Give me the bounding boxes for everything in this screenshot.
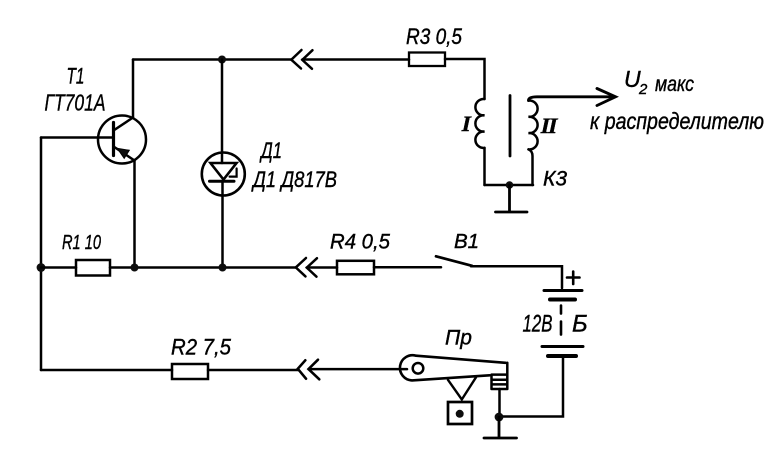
ignition coil primary winding I xyxy=(475,99,484,148)
transistor T1 xyxy=(98,116,146,164)
resistor R2 xyxy=(172,364,208,379)
wire switch to battery corner xyxy=(471,266,562,288)
wire R4 to switch xyxy=(374,266,441,269)
svg-text:макс: макс xyxy=(655,73,694,96)
ignition coil secondary winding II xyxy=(529,100,538,149)
svg-text:R4 0,5: R4 0,5 xyxy=(330,230,391,254)
svg-text:ГТ701А: ГТ701А xyxy=(45,90,106,116)
wire lower rail R2 to chevron xyxy=(208,369,298,372)
wire diode top lead xyxy=(221,60,224,164)
chevron break mark middle rail xyxy=(296,258,317,277)
wire top rail left segment (collector to chevron) xyxy=(133,58,291,61)
node K3 junction dot xyxy=(506,181,514,189)
transformer core xyxy=(509,96,512,157)
resistor R4 xyxy=(337,261,374,275)
arrow head U2 output xyxy=(597,89,616,106)
chevron break mark lower rail xyxy=(298,360,320,380)
wire middle rail chevron to R4 xyxy=(307,266,337,269)
zener diode D1 xyxy=(202,153,245,196)
svg-text:T1: T1 xyxy=(67,64,85,89)
wire diode bottom lead xyxy=(221,181,224,268)
node ground junction dot xyxy=(495,413,504,422)
svg-text:Б: Б xyxy=(572,311,588,338)
svg-text:2: 2 xyxy=(638,81,648,98)
wire left vertical (base to lower rail) xyxy=(40,138,43,371)
breaker pivot hole xyxy=(413,363,424,374)
wire R3 to transformer xyxy=(445,59,485,99)
svg-text:12В: 12В xyxy=(523,311,553,338)
battery plus sign xyxy=(567,272,580,285)
breaker cam axis dot xyxy=(456,410,464,418)
chevron break mark top rail xyxy=(291,50,312,69)
wire secondary top lead to arrow xyxy=(529,97,613,101)
breaker cam square xyxy=(448,402,472,424)
svg-text:Д1: Д1 xyxy=(259,138,282,163)
node emitter junction dot xyxy=(131,264,139,272)
breaker Pr lever arm xyxy=(400,355,506,380)
svg-text:В1: В1 xyxy=(454,230,479,253)
wire contact to ground node xyxy=(498,389,501,417)
node middle-left junction dot xyxy=(37,263,46,272)
wire middle rail R1 to chevron xyxy=(110,266,296,269)
breaker contact stack xyxy=(492,363,508,389)
svg-text:Д1 Д817В: Д1 Д817В xyxy=(250,167,337,192)
svg-text:R2 7,5: R2 7,5 xyxy=(171,335,232,360)
wire battery bottom lead xyxy=(499,356,563,417)
node A junction dot (diode to top rail) xyxy=(218,56,226,64)
wire base lead xyxy=(41,136,112,139)
wire collector riser xyxy=(132,60,135,118)
svg-text:R1 10: R1 10 xyxy=(62,232,101,254)
resistor R1 xyxy=(76,260,110,276)
svg-text:к распределителю: к распределителю xyxy=(590,108,764,134)
ground bottom xyxy=(484,417,517,438)
svg-text:II: II xyxy=(539,113,560,138)
wire middle rail left xyxy=(41,266,76,269)
battery cell 2 xyxy=(542,345,583,348)
svg-text:К3: К3 xyxy=(543,168,567,191)
wire transformer bottom joining xyxy=(485,184,534,187)
wire top rail right segment (chevron to R3) xyxy=(302,58,409,61)
ground under transformer xyxy=(496,185,528,212)
wire lower rail chevron to breaker xyxy=(309,368,407,371)
svg-text:R3 0,5: R3 0,5 xyxy=(406,24,463,49)
battery dashed middle xyxy=(560,306,563,335)
wire secondary bottom lead xyxy=(529,149,533,185)
wire emitter lead down xyxy=(133,161,136,268)
svg-text:I: I xyxy=(460,111,474,136)
resistor R3 xyxy=(409,53,445,67)
node diode junction dot xyxy=(219,264,227,272)
svg-text:Пр: Пр xyxy=(445,327,472,350)
breaker rubbing block triangle xyxy=(448,377,476,399)
wire primary bottom lead xyxy=(483,148,486,185)
switch B1 blade xyxy=(436,256,472,266)
wire lower rail left xyxy=(41,369,172,372)
battery cell 1 xyxy=(544,289,582,292)
